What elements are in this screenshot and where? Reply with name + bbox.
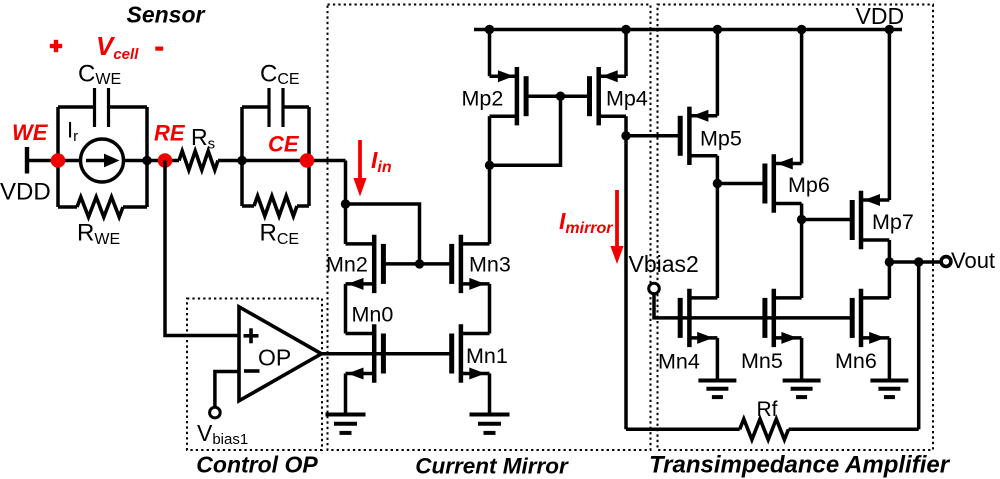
junction node WE box right: [142, 156, 151, 165]
gate wire Mn2-Mn3: [383, 262, 451, 266]
svg-text:OP: OP: [258, 345, 291, 371]
WE label: [12, 120, 49, 145]
VDD label: [856, 3, 905, 29]
Control OP title: [196, 452, 318, 478]
gate wire Mp4 to Mp5: [626, 134, 680, 138]
Vcell minus sign: [155, 46, 163, 50]
Vout terminal: [941, 257, 951, 267]
junction node CE box left: [237, 156, 246, 165]
wire Rf left: [626, 428, 740, 432]
Iin label: [371, 147, 392, 176]
wire Mp6 drain to Mn5 drain: [800, 204, 804, 299]
Imirror label: [559, 208, 613, 237]
Mn5 label: [741, 349, 783, 373]
wire WE-RE-Rs: [58, 159, 179, 163]
wire Mp5 drain to Mn4 drain: [716, 156, 720, 298]
VDD label (WE electrode): [0, 179, 51, 206]
resistor RCE: [254, 196, 297, 216]
Mn1 label: [466, 344, 508, 368]
Vbias2 label: [629, 251, 699, 277]
wire Mp4 source to rail: [624, 30, 628, 77]
Mp5 label: [700, 127, 742, 151]
Mp4 label: [606, 87, 648, 111]
svg-text:CE: CE: [268, 132, 300, 157]
svg-text:Mp6: Mp6: [788, 173, 830, 197]
transistor Mn3: [452, 235, 490, 293]
svg-text:Sensor: Sensor: [127, 2, 206, 28]
transistor Mp7: [852, 191, 889, 249]
svg-text:Rf: Rf: [757, 398, 778, 421]
CCE label: [260, 61, 300, 89]
Mp6 label: [788, 173, 830, 197]
svg-text:Mn2: Mn2: [326, 253, 368, 277]
Randles cell CE outline: [242, 107, 309, 206]
svg-text:WE: WE: [12, 120, 49, 145]
wire Rf to Vout: [917, 262, 921, 429]
CWE label: [78, 61, 121, 89]
wire Mn0 source to ground: [344, 374, 348, 415]
ground (Mn6): [870, 381, 908, 398]
Iin current arrow: [353, 140, 366, 197]
svg-text:VDD: VDD: [0, 179, 51, 206]
transistor Mp4: [590, 67, 627, 125]
RCE label: [260, 220, 300, 249]
ground (Mn0): [326, 415, 366, 433]
svg-text:Current Mirror: Current Mirror: [415, 454, 569, 479]
node Iin junction: [341, 199, 350, 208]
transistor Mp5: [680, 107, 717, 165]
Current Mirror dashed box: [328, 5, 651, 451]
Vcell label: [96, 31, 139, 63]
node Mp2/Mp4 gate junction: [556, 92, 565, 101]
svg-text:Mp7: Mp7: [872, 210, 914, 234]
VDD supply rail: [474, 28, 902, 32]
node rail Mp6: [797, 25, 806, 34]
transistor Mn6: [852, 289, 889, 347]
Rf label: [757, 398, 778, 421]
RWE label: [77, 220, 120, 249]
svg-text:Mn3: Mn3: [469, 253, 511, 277]
svg-text:Transimpedance Amplifier: Transimpedance Amplifier: [649, 452, 951, 479]
svg-text:Mp2: Mp2: [462, 87, 504, 111]
Vbias1 terminal: [210, 407, 221, 418]
Transimpedance Amplifier dashed box: [658, 5, 934, 451]
current source Ir: [81, 139, 124, 182]
op-amp plus input marker: [244, 328, 259, 343]
node RE (red): [158, 153, 173, 168]
node WE (red): [51, 153, 66, 168]
wire CE to Iin node: [344, 161, 348, 205]
Vbias1 label: [197, 420, 248, 448]
Vbias2 terminal: [649, 283, 660, 294]
wire Mp6 source to rail: [800, 30, 804, 164]
resistor Rs: [179, 151, 218, 170]
wire Mn2 source to Mn0 drain: [344, 284, 348, 334]
OP label: [258, 345, 291, 371]
Mn3 label: [469, 253, 511, 277]
Transimpedance Amplifier title: [649, 452, 951, 479]
resistor RWE: [77, 197, 123, 217]
Control OP dashed box: [187, 299, 322, 451]
wire Mp4 drain down (Imirror): [624, 116, 628, 429]
wire Mp5 source to rail: [716, 30, 720, 116]
node Mp2 drain junction: [485, 161, 494, 170]
bias wire Vbias2 to Mn4/Mn5/Mn6 gates: [654, 294, 852, 318]
wire Mn6 source to ground: [888, 338, 892, 381]
node Mp4 drain junction: [621, 131, 630, 140]
svg-text:Mn1: Mn1: [466, 344, 508, 368]
wire Mp7 source to rail: [888, 30, 892, 201]
wire op-amp output to Mn0/Mn1 gates: [321, 352, 451, 356]
node Vout right: [914, 257, 923, 266]
wire Mp7 drain to Vout node: [888, 240, 892, 298]
transistor Mn1: [452, 324, 490, 382]
Mn6 label: [835, 349, 877, 373]
wire Mn4 source to ground: [716, 338, 720, 381]
RE label: [154, 121, 186, 146]
transistor Mp2: [490, 67, 527, 125]
svg-text:Mn5: Mn5: [741, 349, 783, 373]
node rail Mp4: [621, 25, 630, 34]
wire Iin node to Mn2 drain: [344, 204, 348, 244]
ground (Mn5): [783, 381, 821, 398]
Mp2 label: [462, 87, 504, 111]
Vcell plus sign: [50, 40, 62, 52]
transistor Mn4: [680, 289, 717, 347]
wire Rs to CE cell: [218, 159, 346, 163]
Mp7 label: [872, 210, 914, 234]
Mn4 label: [658, 350, 700, 374]
node CE (red): [300, 153, 315, 168]
node Vout left: [885, 257, 894, 266]
svg-text:Mn0: Mn0: [352, 303, 394, 327]
capacitor CCE: [269, 88, 283, 127]
capacitor CWE: [95, 88, 109, 127]
sensor section title: [127, 2, 206, 28]
node rail Mp5: [713, 25, 722, 34]
wire Mp2 drain down: [488, 116, 492, 165]
gate wire Mp2-Mp4: [526, 94, 589, 98]
transistor Mp6: [765, 154, 802, 212]
op-amp minus input marker: [244, 369, 260, 373]
svg-text:VDD: VDD: [856, 3, 905, 29]
wire inverting input to Vbias1: [215, 372, 239, 408]
transistor Mn2: [346, 235, 384, 293]
svg-text:Mn6: Mn6: [835, 349, 877, 373]
svg-text:Mn4: Mn4: [658, 350, 700, 374]
Mn0 label: [352, 303, 394, 327]
Current Mirror title: [415, 454, 569, 479]
svg-text:Vout: Vout: [951, 248, 995, 273]
Imirror current arrow: [610, 190, 623, 264]
ground (Mn1): [470, 415, 510, 433]
svg-text:Vbias2: Vbias2: [629, 251, 699, 277]
gate wire Mp5 to Mp6: [717, 182, 765, 186]
Vout label: [951, 248, 995, 273]
gate wire Mp6 to Mp7: [802, 218, 853, 222]
node rail Mp7: [885, 25, 894, 34]
transistor Mn0: [346, 324, 384, 382]
svg-text:Control OP: Control OP: [196, 452, 318, 478]
wire RE to op-amp noninverting input: [165, 161, 239, 336]
CE label: [268, 132, 300, 157]
transistor Mn5: [765, 289, 802, 347]
node Mp6 drain junction: [797, 215, 806, 224]
wire Mn5 source to ground: [800, 338, 804, 381]
wire Mp2 source to rail: [488, 30, 492, 77]
wire Iin node to mirror gates: [346, 204, 420, 264]
node Mn2/Mn3 gate junction: [415, 259, 424, 268]
ground (Mn4): [698, 381, 736, 398]
wire Mn3 drain up: [488, 165, 492, 244]
wire WE terminal to WE node: [27, 159, 58, 163]
Ir label: [67, 118, 78, 145]
wire Mn3 source to Mn1 drain: [488, 284, 492, 334]
svg-text:RE: RE: [154, 121, 186, 146]
svg-text:Mp4: Mp4: [606, 87, 648, 111]
resistor Rf: [740, 419, 789, 440]
wire Vout: [889, 260, 940, 264]
op-amp OP triangle: [239, 307, 321, 401]
Randles cell WE outline: [58, 107, 147, 207]
node Mp5 drain junction: [713, 179, 722, 188]
Mn2 label: [326, 253, 368, 277]
Rs label: [191, 124, 215, 152]
wire Mn1 source to ground: [488, 374, 492, 415]
WE terminal bar: [25, 147, 29, 174]
node rail Mp2: [485, 25, 494, 34]
svg-text:Mp5: Mp5: [700, 127, 742, 151]
wire Rf right: [789, 428, 919, 432]
diode-connect wire Mp2: [490, 96, 561, 165]
